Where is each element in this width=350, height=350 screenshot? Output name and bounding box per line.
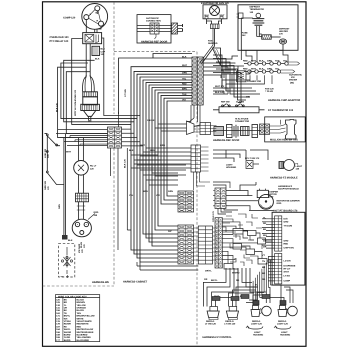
svg-text:EVAPORATOR FAN 120: EVAPORATOR FAN 120 [201,2,229,5]
svg-text:OR: OR [64,307,68,310]
svg-text:STAT: STAT [284,271,290,274]
svg-text:FZ LT SW 172: FZ LT SW 172 [245,157,260,160]
svg-text:RD: RD [263,222,267,225]
bundle wire labels (mid) [129,144,173,197]
svg-text:WTR VLV SOLENOID 120: WTR VLV SOLENOID 120 [74,89,77,116]
svg-text:BK: BK [262,272,266,275]
svg-text:LIGHT 120: LIGHT 120 [251,322,263,325]
svg-text:WHITE: WHITE [77,317,84,320]
extra fz module wires [222,234,262,260]
bundle vertical into H [118,112,120,127]
svg-text:(IM): (IM) [290,81,294,84]
svg-text:TERMINATOR: TERMINATOR [250,8,265,11]
lamp switch unit 2 [226,307,238,320]
svg-text:ICE MKR: ICE MKR [78,243,81,253]
wires into hot pt strip from left [253,219,275,305]
ice maker terminal row 1 [244,62,300,65]
svg-text:BLK: BLK [259,59,264,62]
svg-text:COMP: COMP [284,280,291,283]
mullion thermistor shape [270,120,297,140]
svg-text:1??: 1?? [56,339,60,342]
cabinet boundary dash line vertical right [196,52,198,346]
svg-text:AUTOMATIC: AUTOMATIC [146,17,159,20]
svg-text:MULLION HEATER TAG: MULLION HEATER TAG [270,138,298,141]
harness-WE boundary dash line [43,285,115,287]
svg-text:BU/RD: BU/RD [64,334,71,337]
RC light 120 [74,138,89,193]
svg-text:DEFROST: DEFROST [250,6,261,9]
svg-text:HI ALTITUDE: HI ALTITUDE [235,118,249,121]
svg-text:LIGHT 120: LIGHT 120 [277,322,289,325]
svg-text:RF LIT: RF LIT [284,268,291,271]
connector grid A (evap/cabinet) [192,57,203,105]
wires exiting grid A right [203,56,238,78]
svg-text:156 BK: 156 BK [147,119,155,122]
svg-text:WHT: WHT [66,151,72,154]
svg-text:LIGHT: LIGHT [296,165,303,168]
svg-text:BROWN: BROWN [77,301,86,304]
fan connector band [211,24,220,29]
wire loop bundle below compressor [58,38,140,138]
svg-text:LT SW 120: LT SW 120 [205,322,217,325]
svg-text:ORANGE: ORANGE [77,307,87,310]
refr light unit 3 [251,306,271,317]
svg-text:TN: TN [262,260,265,263]
svg-text:HEATER: HEATER [279,30,288,33]
svg-text:RED/WHITE: RED/WHITE [77,323,90,326]
svg-text:VT/WH: VT/WH [64,320,71,323]
lamp switch unit 1 [207,307,219,320]
svg-text:YEL: YEL [283,59,288,62]
wires below connector H [111,148,132,250]
svg-text:HARNESS-CHIP-ADAPTOR: HARNESS-CHIP-ADAPTOR [268,99,300,102]
svg-text:LO DIV: LO DIV [284,260,292,263]
fz module strip pin marks [216,219,222,268]
svg-text:CONN 176: CONN 176 [212,211,215,222]
wire stubs with labels right of door chain [213,88,228,94]
svg-text:OVERLOAD 120: OVERLOAD 120 [50,36,70,39]
svg-text:HARNESS-CABINET: HARNESS-CABINET [123,281,148,284]
svg-text:YELLOW/RED: YELLOW/RED [77,336,92,339]
svg-text:OR: OR [263,246,267,249]
svg-text:AUTOMATIC: AUTOMATIC [289,74,302,77]
light housing brace 2 [274,326,291,329]
run capacitor BLK CAP 120 [92,46,100,55]
wires below grid A to fan-out [187,105,201,127]
svg-text:WHT: WHT [182,64,188,67]
svg-text:WHT: WHT [220,14,226,17]
ref alarm switch rail [213,104,265,113]
svg-text:HARNESS-FZ: HARNESS-FZ [278,185,293,188]
svg-text:HOUSING: HOUSING [280,333,291,336]
bottom-right nested wire loops [203,268,293,307]
HOT PT board connector strip [275,216,282,284]
svg-text:REFR-G: REFR-G [278,320,287,323]
misc tiny wire labels [56,58,251,282]
svg-text:172 WH: 172 WH [124,89,127,97]
svg-text:RED: RED [182,82,187,85]
cabinet boundary dash line horizontal mid-top [114,51,197,53]
svg-text:TH COM: TH COM [284,225,293,228]
wires connector G to damper motor [226,182,258,210]
svg-text:WH: WH [263,234,267,237]
svg-text:HARNESS-REF DOOR: HARNESS-REF DOOR [213,139,239,142]
power plug 120 [72,214,95,237]
svg-text:RED: RED [243,67,248,70]
fz light switch [246,161,259,169]
ice maker row labels [243,59,288,70]
plug connector band [76,193,89,219]
FZ control module left strip [215,218,222,268]
evaporator fan 120 [203,5,227,24]
wire labels bottom right [205,270,267,299]
fan-out connector F1 [187,121,217,135]
svg-text:RD/WH: RD/WH [64,323,72,326]
svg-text:LIGHT: LIGHT [226,164,233,167]
evap compartment wire staircase [213,55,272,103]
svg-text:GRD: GRD [94,211,99,214]
defrost heater resistor [262,35,281,39]
wires into fz light area [213,150,268,162]
rail tiny labels [221,101,244,104]
svg-text:YL/RD: YL/RD [64,336,71,339]
svg-text:? PLUG: ? PLUG [265,90,273,93]
svg-text:LIGHT: LIGHT [254,331,261,334]
svg-text:ORN: ORN [182,72,187,75]
harness-ref-door box top middle [137,15,172,43]
svg-text:BROWN/YELLOW: BROWN/YELLOW [77,315,96,318]
svg-text:HOUSING: HOUSING [226,166,237,169]
svg-text:BLACK: BLACK [77,309,85,312]
svg-text:VIOLET/WHITE: VIOLET/WHITE [77,320,93,323]
accessory dashed box (ice maker kit) [59,244,75,278]
svg-text:CHIP FAN: CHIP FAN [284,247,295,250]
wire compressor to relay [86,11,101,33]
wire fan down to connector [202,29,215,64]
svg-text:YEL: YEL [182,77,187,80]
svg-text:REF SW: REF SW [221,101,230,104]
svg-text:REFR-G: REFR-G [225,320,234,323]
svg-text:ALARM: ALARM [236,101,244,104]
svg-text:BLK: BLK [101,48,106,51]
wire color code table [56,295,100,342]
svg-text:TAN: TAN [182,93,187,96]
svg-text:WHITE/ORANGE: WHITE/ORANGE [77,331,94,334]
svg-text:BLUE/RED: BLUE/RED [77,334,88,337]
icemaker connector box [237,71,246,82]
labels near stubs [215,85,225,94]
svg-text:Defr: Defr [284,218,289,221]
svg-text:GRN: GRN [267,59,272,62]
ice maker terminal row 2 [244,70,295,73]
svg-text:GRD: GRD [284,240,289,243]
FZ control small relay boxes [222,222,272,272]
svg-text:TAN: TAN [77,312,82,315]
svg-text:RED: RED [243,59,248,62]
connector H mid-left [108,127,122,148]
svg-text:BLK 120: BLK 120 [124,158,127,168]
fz module extra wires [222,219,262,240]
HOT PT BOARD outline [272,212,305,285]
svg-text:GRD: GRD [284,221,289,224]
fz module extra elbows [226,214,258,266]
cabinet boundary dash line vertical left [113,2,115,286]
overload / PTC relay box [83,33,102,44]
svg-text:WH: WH [64,317,68,320]
svg-text:GRD SW: GRD SW [44,180,47,190]
svg-text:LINE SW: LINE SW [44,148,47,158]
svg-text:BK: BK [263,228,267,231]
svg-text:RD: RD [64,325,68,328]
svg-text:BLACK/RED: BLACK/RED [77,339,90,342]
svg-text:WHT: WHT [140,144,146,147]
svg-text:BK/RD: BK/RD [64,339,71,342]
mullion box connector [260,124,270,135]
svg-text:RED: RED [284,243,289,246]
svg-text:CAP: CAP [101,50,106,53]
svg-text:BR: BR [262,266,266,269]
svg-text:OR: OR [204,278,208,281]
svg-text:HARNESS-REF DOOR: HARNESS-REF DOOR [141,40,167,43]
svg-text:RC LT: RC LT [90,165,97,168]
fan shroud triangle [213,48,221,66]
svg-text:GRN: GRN [58,204,61,209]
wires out of connector H [56,129,143,146]
svg-text:WH/RD: WH/RD [232,272,240,275]
svg-text:BR: BR [64,301,68,304]
svg-text:FAN 120: FAN 120 [265,88,274,91]
svg-text:VIO: VIO [156,194,160,197]
svg-text:WH/OR: WH/OR [64,331,72,334]
svg-text:TAN: TAN [275,59,280,62]
damper motor [249,189,274,211]
svg-text:HARNESS-FZ MODULE: HARNESS-FZ MODULE [270,177,298,180]
svg-text:BLK: BLK [95,58,100,61]
svg-text:BK/YL: BK/YL [211,279,218,282]
refrigerator door switch chain [213,125,261,138]
heater element oval [241,18,286,50]
svg-text:SHROUD: SHROUD [208,42,218,45]
svg-text:COMP 120: COMP 120 [63,17,76,20]
connector hatch right of ref-door box [172,23,183,34]
damper motor connector G [213,188,226,208]
wires into connector G from left [213,182,230,188]
branch wires middle [131,124,210,190]
svg-text:DAMPER: DAMPER [269,191,279,194]
svg-text:ADAPTOR MODULE: ADAPTOR MODULE [278,188,299,191]
defrost circuit box [238,5,298,51]
svg-text:REFR-G: REFR-G [206,320,215,323]
svg-text:CONNECTOR: CONNECTOR [235,120,249,123]
svg-text:CONNECTION: CONNECTION [146,20,161,23]
mullion heater box [265,117,306,142]
svg-text:TN: TN [64,312,67,315]
svg-text:PTC RELAY 120: PTC RELAY 120 [50,40,69,43]
fz light bulb [279,160,295,171]
svg-text:MOTOR-FZE DAMPER: MOTOR-FZE DAMPER [277,200,300,203]
svg-text:WHITE/YELLOW: WHITE/YELLOW [77,328,95,331]
svg-text:LIGHT: LIGHT [281,331,288,334]
water valve solenoid WTR VLV 120 [81,77,100,121]
svg-text:BLK: BLK [259,67,264,70]
defrost terminator component [253,13,265,36]
refr light unit 4 [278,306,297,317]
svg-text:FZ THERMISTOR 102: FZ THERMISTOR 102 [268,109,294,112]
connector C lower-mid [191,145,209,172]
svg-text:MAKER: MAKER [289,79,297,82]
svg-text:ICE: ICE [291,76,295,79]
svg-text:BLACK: BLACK [77,298,85,301]
hot pt strip stub labels [262,216,267,281]
svg-text:BN/YL: BN/YL [64,315,71,318]
wire bundle stepped into grid A [119,54,192,113]
svg-text:YEL: YEL [129,194,134,197]
svg-text:BLK: BLK [205,14,210,17]
svg-text:RED: RED [77,325,82,328]
svg-text:GRN: GRN [267,67,272,70]
svg-text:RED: RED [150,149,155,152]
svg-text:LT SW 120: LT SW 120 [224,322,236,325]
svg-text:BRN: BRN [182,87,187,90]
tall connector E [178,225,194,264]
wires G bottom to module [218,208,238,214]
svg-text:VIO: VIO [182,98,186,101]
wire long left pair down to termination [62,134,68,240]
svg-text:BK: BK [64,309,68,312]
svg-text:BK: BK [64,298,68,301]
svg-text:GRN: GRN [168,190,173,193]
svg-text:RD: RD [236,279,240,282]
svg-text:YELLOW: YELLOW [77,304,87,307]
HOT PT board labels [284,218,296,283]
svg-text:OR/YL: OR/YL [205,270,212,273]
svg-text:REFR-G: REFR-G [252,320,261,323]
svg-text:BLK: BLK [182,55,187,58]
svg-text:BLK 120: BLK 120 [56,102,59,112]
svg-text:BLK: BLK [129,149,134,152]
svg-text:GRD: GRD [277,202,282,205]
bundle labels near grid A [182,55,188,101]
svg-text:RD: RD [262,278,266,281]
sensor stub left of defrost box [237,13,244,19]
line switch upper left [45,134,64,185]
main vertical wire bundle (cabinet harness) [119,112,199,270]
svg-text:BLK 120: BLK 120 [215,91,225,94]
svg-text:WHT: WHT [251,67,257,70]
svg-text:HOT PT BOARD 176: HOT PT BOARD 176 [274,209,299,212]
svg-text:HARNESS-FZ CONTROL: HARNESS-FZ CONTROL [203,336,233,339]
wire tag BLK (lamp 1) [212,295,286,306]
svg-text:DI-SPENSE: DI-SPENSE [284,265,296,268]
connector F right of E [194,226,218,264]
svg-text:ORN: ORN [160,144,165,147]
svg-text:YEL: YEL [275,67,280,70]
svg-text:LT NO: LT NO [284,275,291,278]
light housing brace 1 [246,326,263,329]
compressor COMP 120 [82,4,108,30]
svg-text:WIRE COLOR CODE KEY: WIRE COLOR CODE KEY [58,295,87,298]
svg-text:WH/YL: WH/YL [64,328,72,331]
svg-text:GN: GN [263,240,267,243]
extra crossing wires left-mid [70,136,108,146]
svg-text:FUSE: FUSE [242,32,248,35]
tall connector D [178,191,194,212]
svg-text:BLK: BLK [68,239,73,242]
svg-text:HOUSING: HOUSING [253,333,264,336]
wires defrost box to icemaker rows [221,50,288,88]
svg-text:HARNESS-WE: HARNESS-WE [92,281,109,284]
svg-text:BRN: BRN [143,190,148,193]
svg-text:DEFROST: DEFROST [279,28,290,31]
svg-text:FAN: FAN [208,40,213,43]
